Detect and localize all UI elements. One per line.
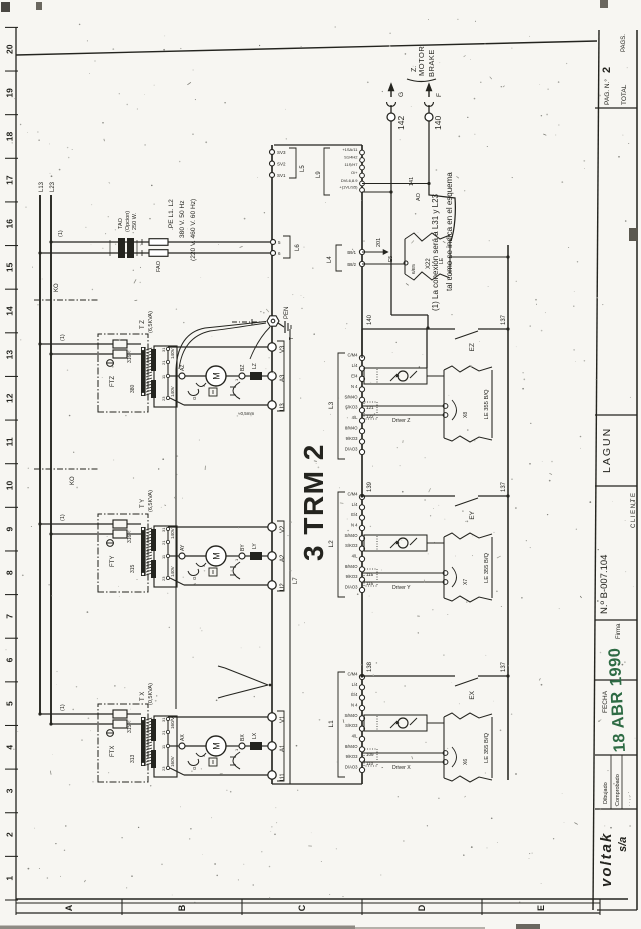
svg-text:115: 115 <box>366 572 374 577</box>
svg-text:V2: V2 <box>280 525 286 533</box>
svg-text:31: 31 <box>161 717 166 722</box>
svg-text:L13: L13 <box>39 181 45 192</box>
svg-text:S1/4H2: S1/4H2 <box>344 155 358 160</box>
svg-text:X8: X8 <box>463 412 469 418</box>
svg-text:6: 6 <box>5 657 15 662</box>
svg-text:AX: AX <box>180 734 186 741</box>
svg-text:EY: EY <box>469 510 476 519</box>
svg-text:Dibujado: Dibujado <box>603 782 609 804</box>
svg-text:3 TRM 2: 3 TRM 2 <box>298 443 329 561</box>
svg-text:O/+: O/+ <box>351 170 358 175</box>
svg-text:L4: L4 <box>327 256 333 263</box>
svg-text:Comprobado: Comprobado <box>615 774 621 806</box>
svg-text:L7: L7 <box>293 577 299 584</box>
svg-text:16: 16 <box>5 219 15 229</box>
svg-text:9/KO3: 9/KO3 <box>346 436 359 441</box>
svg-text:121: 121 <box>366 405 374 410</box>
svg-text:G: G <box>192 576 197 580</box>
svg-text:EX: EX <box>469 690 476 699</box>
svg-text:Firma: Firma <box>616 623 622 639</box>
svg-text:C L I E N,T E: C L I E N,T E <box>631 493 637 528</box>
svg-text:8/M4O: 8/M4O <box>345 426 358 431</box>
svg-text:2: 2 <box>5 832 15 837</box>
svg-text:S/M4O: S/M4O <box>344 394 358 399</box>
svg-text:G: G <box>192 766 197 770</box>
svg-text:316 ≈: 316 ≈ <box>127 530 133 543</box>
svg-text:139: 139 <box>367 481 373 492</box>
svg-text:15: 15 <box>5 262 15 272</box>
svg-text:17: 17 <box>5 175 15 185</box>
svg-text:L1: L1 <box>328 720 335 728</box>
svg-text:N 4: N 4 <box>351 384 358 389</box>
svg-text:S/M4O: S/M4O <box>344 713 358 718</box>
svg-text:316 ≈: 316 ≈ <box>127 350 133 363</box>
svg-text:250 W.: 250 W. <box>132 212 138 230</box>
svg-text:AO: AO <box>416 192 422 201</box>
svg-text:141: 141 <box>409 177 415 186</box>
svg-text:tal como se indica en el esque: tal como se indica en el esquema <box>445 172 454 291</box>
svg-text:12: 12 <box>5 393 15 403</box>
svg-text:G: G <box>398 92 405 97</box>
svg-text:PEN: PEN <box>284 307 290 319</box>
svg-text:(220 V. 460 V. 60 Hz): (220 V. 460 V. 60 Hz) <box>190 199 197 261</box>
svg-text:160V: 160V <box>170 755 175 767</box>
svg-text:F: F <box>436 93 443 97</box>
svg-text:9/KO3: 9/KO3 <box>346 574 359 579</box>
svg-text:E/4: E/4 <box>351 373 358 378</box>
svg-text:AY: AY <box>180 544 186 551</box>
svg-text:(0,5KVA): (0,5KVA) <box>148 683 154 705</box>
svg-text:C/M4: C/M4 <box>347 353 358 358</box>
svg-text:14: 14 <box>5 306 15 316</box>
svg-text:18: 18 <box>5 131 15 141</box>
svg-text:T: T <box>289 337 295 340</box>
svg-text:Driver X: Driver X <box>392 765 411 771</box>
svg-text:(6,5KVA): (6,5KVA) <box>148 311 154 333</box>
svg-text:2: 2 <box>601 67 613 73</box>
svg-text:9: 9 <box>5 527 15 532</box>
svg-text:140: 140 <box>433 116 443 130</box>
svg-text:Driver Y: Driver Y <box>392 585 411 591</box>
svg-text:BY: BY <box>240 544 246 551</box>
svg-text:D/AO3: D/AO3 <box>345 765 358 770</box>
svg-text:B9/1: B9/1 <box>347 250 356 255</box>
svg-text:N 4: N 4 <box>351 523 358 528</box>
svg-text:8/M4O: 8/M4O <box>345 564 358 569</box>
svg-text:137: 137 <box>501 661 507 672</box>
svg-text:C/M4: C/M4 <box>347 672 358 677</box>
svg-text:LE 355 B/Q: LE 355 B/Q <box>484 389 490 419</box>
svg-text:U1: U1 <box>280 773 286 781</box>
svg-text:S/KO3: S/KO3 <box>345 543 358 548</box>
svg-text:(1): (1) <box>60 334 66 341</box>
svg-text:T X: T X <box>140 692 146 701</box>
svg-text:+1SA/11: +1SA/11 <box>342 147 358 152</box>
svg-text:380 V. 50 Hz: 380 V. 50 Hz <box>179 200 186 238</box>
svg-text:380: 380 <box>130 384 136 393</box>
svg-text:9/KO3: 9/KO3 <box>346 754 359 759</box>
svg-text:S/KO3: S/KO3 <box>345 723 358 728</box>
svg-text:109: 109 <box>366 752 374 757</box>
svg-text:137: 137 <box>501 481 507 492</box>
svg-text:3: 3 <box>5 788 15 793</box>
svg-text:BZ: BZ <box>240 365 246 371</box>
svg-text:LY: LY <box>252 543 258 549</box>
svg-text:FTX: FTX <box>110 746 116 757</box>
svg-text:LX: LX <box>252 732 258 739</box>
svg-text:(1): (1) <box>60 514 66 521</box>
svg-text:23: 23 <box>161 396 166 401</box>
svg-text:. . , ,. ·: . . , ,. · <box>626 791 632 806</box>
svg-text:(1): (1) <box>60 704 66 711</box>
svg-text:142: 142 <box>396 116 406 130</box>
svg-text:7: 7 <box>5 614 15 619</box>
svg-text:6/E5: 6/E5 <box>411 264 417 274</box>
svg-text:BRAKE: BRAKE <box>427 49 436 77</box>
svg-text:13: 13 <box>5 350 15 360</box>
svg-text:V3: V3 <box>280 345 286 353</box>
svg-text:313: 313 <box>130 754 136 763</box>
svg-text:19: 19 <box>5 88 15 98</box>
svg-text:C/M4: C/M4 <box>347 492 358 497</box>
svg-text:FAO: FAO <box>156 260 162 272</box>
svg-text:138: 138 <box>367 661 373 672</box>
svg-text:voltak: voltak <box>598 832 615 887</box>
svg-text:LE 355 B/Q: LE 355 B/Q <box>484 733 490 763</box>
svg-text:L9: L9 <box>316 171 322 178</box>
svg-text:B: B <box>177 904 187 911</box>
svg-text:11S/H7: 11S/H7 <box>344 162 358 167</box>
svg-text:122: 122 <box>366 414 374 419</box>
svg-text:(1) La conexión será a L31: (1) La conexión será a L31 y L23 <box>431 193 440 311</box>
svg-text:21: 21 <box>161 360 166 365</box>
svg-text:140: 140 <box>367 314 373 325</box>
svg-text:BX: BX <box>240 734 246 741</box>
svg-text:L23: L23 <box>50 181 56 192</box>
svg-text:S/KO3: S/KO3 <box>345 405 358 410</box>
svg-text:G: G <box>192 396 197 400</box>
svg-text:(Opcion): (Opcion) <box>125 211 131 232</box>
svg-text:L/4: L/4 <box>352 502 358 507</box>
svg-text:A: A <box>64 904 74 911</box>
svg-text:X7: X7 <box>463 579 469 585</box>
svg-text:L2: L2 <box>328 540 335 548</box>
svg-text:LE 355 B/Q: LE 355 B/Q <box>484 553 490 583</box>
svg-text:D/AO3: D/AO3 <box>345 585 358 590</box>
svg-text:8: 8 <box>5 570 15 575</box>
svg-text:20: 20 <box>5 44 15 54</box>
svg-text:140V: 140V <box>170 565 175 577</box>
svg-text:E/4: E/4 <box>351 512 358 517</box>
svg-text:KO: KO <box>54 283 60 292</box>
svg-text:SV2: SV2 <box>277 162 286 167</box>
svg-text:.PE L1. L2: .PE L1. L2 <box>168 199 175 230</box>
svg-text:SV3: SV3 <box>277 150 286 155</box>
svg-text:TOTAL: TOTAL <box>621 84 628 105</box>
svg-text:A2: A2 <box>280 554 286 562</box>
svg-text:110: 110 <box>366 761 374 766</box>
svg-text:FTZ: FTZ <box>110 376 116 387</box>
svg-text:MOTOR: MOTOR <box>417 46 426 76</box>
svg-text:s/a: s/a <box>617 837 629 852</box>
svg-text:31: 31 <box>161 347 166 352</box>
svg-text:U3: U3 <box>280 403 286 411</box>
svg-text:21: 21 <box>161 730 166 735</box>
svg-text:FTY: FTY <box>110 556 116 567</box>
svg-text:L5: L5 <box>300 165 306 172</box>
svg-text:140V: 140V <box>170 385 175 397</box>
svg-text:N.º B-007.104: N.º B-007.104 <box>599 555 610 614</box>
svg-text:21: 21 <box>161 540 166 545</box>
svg-text:160/V: 160/V <box>170 716 175 729</box>
svg-text:M: M <box>212 552 222 560</box>
svg-text:4: 4 <box>5 745 15 750</box>
svg-text:E/4: E/4 <box>351 692 358 697</box>
svg-text:EZ: EZ <box>469 343 476 351</box>
svg-text:M: M <box>212 742 222 750</box>
svg-text:5: 5 <box>5 701 15 706</box>
svg-text:U2: U2 <box>280 583 286 591</box>
svg-text:137: 137 <box>501 314 507 325</box>
svg-text:201: 201 <box>376 238 382 247</box>
svg-text:SV1: SV1 <box>277 173 286 178</box>
svg-text:4/L: 4/L <box>352 415 358 420</box>
svg-text:23: 23 <box>161 576 166 581</box>
svg-text:AZ: AZ <box>180 365 186 371</box>
svg-text:140V: 140V <box>170 527 175 539</box>
svg-text:V1: V1 <box>280 715 286 723</box>
svg-text:11: 11 <box>5 437 15 446</box>
svg-text:4/L: 4/L <box>352 734 358 739</box>
svg-text:TAO: TAO <box>118 217 124 229</box>
svg-text:4/L: 4/L <box>352 554 358 559</box>
svg-text:E: E <box>536 905 546 911</box>
svg-text:DVL6,8.9: DVL6,8.9 <box>341 178 358 183</box>
svg-text:T Z: T Z <box>140 320 146 329</box>
svg-text:LZ: LZ <box>252 363 258 369</box>
svg-text:Driver Z: Driver Z <box>392 418 410 424</box>
svg-text:C: C <box>297 904 307 911</box>
svg-text:B8/2: B8/2 <box>347 262 356 267</box>
svg-text:L/4: L/4 <box>352 363 358 368</box>
svg-text:S/M4O: S/M4O <box>344 533 358 538</box>
svg-text:T Y: T Y <box>140 499 146 508</box>
svg-text:D/AO3: D/AO3 <box>345 447 358 452</box>
svg-text:M: M <box>212 372 222 380</box>
svg-text:116: 116 <box>366 581 374 586</box>
svg-text:L3: L3 <box>328 401 335 409</box>
svg-text:31: 31 <box>161 527 166 532</box>
svg-text:315 ≈: 315 ≈ <box>127 720 133 733</box>
svg-text:8/M4O: 8/M4O <box>345 744 358 749</box>
svg-text:(6,5KVA): (6,5KVA) <box>148 490 154 512</box>
svg-text:L6: L6 <box>295 244 301 251</box>
svg-text:D: D <box>417 904 427 911</box>
svg-text:X6: X6 <box>463 759 469 765</box>
svg-text:(1): (1) <box>58 230 64 237</box>
svg-text:+(1VL/S5): +(1VL/S5) <box>339 185 358 190</box>
svg-text:10: 10 <box>5 481 15 491</box>
svg-text:≈0,5mm: ≈0,5mm <box>238 411 254 416</box>
svg-text:N 4: N 4 <box>351 703 358 708</box>
svg-text:1: 1 <box>5 876 15 881</box>
svg-text:LAGUN: LAGUN <box>601 427 613 473</box>
svg-text:KO: KO <box>70 476 76 485</box>
svg-text:A1: A1 <box>280 744 286 752</box>
svg-text:315: 315 <box>130 564 136 573</box>
svg-text:L/4: L/4 <box>352 682 358 687</box>
svg-text:A3: A3 <box>280 374 286 382</box>
svg-text:PAG. N.°: PAG. N.° <box>603 79 611 105</box>
svg-text:23: 23 <box>161 766 166 771</box>
svg-text:PAGS.: PAGS. <box>621 34 627 52</box>
svg-text:140V: 140V <box>170 347 175 359</box>
